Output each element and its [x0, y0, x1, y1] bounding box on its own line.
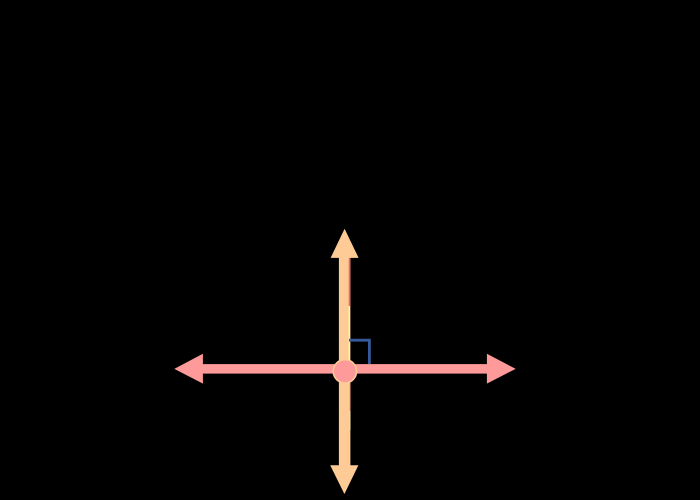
horizontal line (pink, double arrow): [174, 354, 515, 384]
intersection point (pink dot with peach ring): [333, 360, 356, 383]
faint red sliver on right edge of vertical line (below point): [349, 383, 352, 411]
right-angle marker (blue): [349, 340, 369, 364]
faint yellow sliver on right edge of vertical line (below point): [349, 411, 352, 430]
vertical line (peach, double arrow): [330, 229, 358, 494]
yellow sliver on right edge of vertical line (above point): [349, 306, 350, 361]
red sliver on right edge of vertical line (above point): [349, 258, 351, 306]
